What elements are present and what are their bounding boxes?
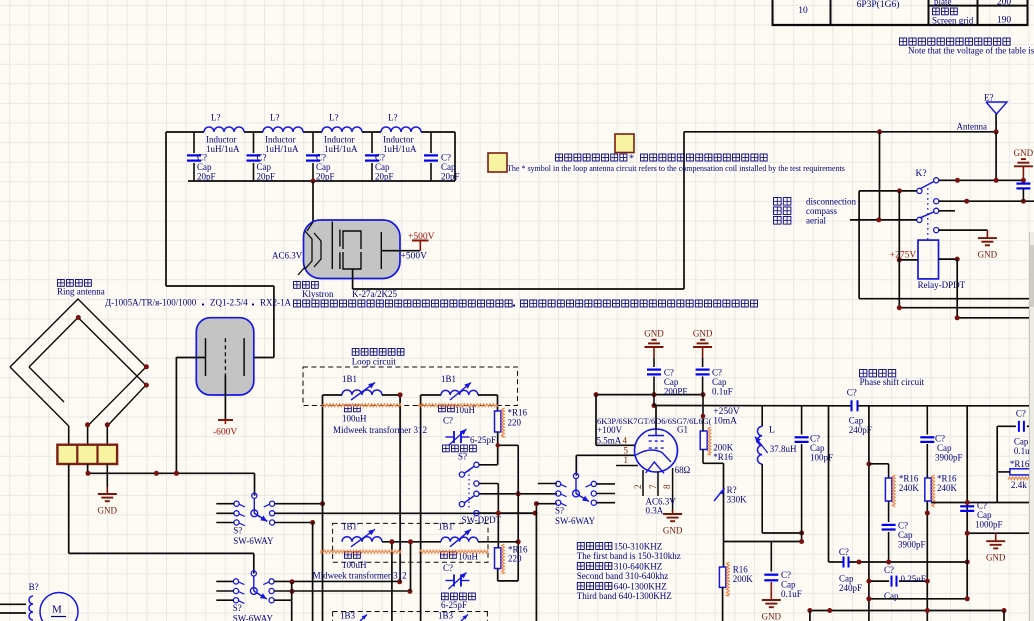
svg-text:240K: 240K (937, 483, 958, 493)
svg-text:C?: C? (712, 368, 722, 378)
svg-text:C?: C? (664, 368, 674, 378)
svg-text:Second band 310-640khz: Second band 310-640khz (577, 571, 668, 581)
svg-text:GND: GND (98, 506, 118, 516)
svg-text:Phase shift circuit: Phase shift circuit (860, 377, 925, 387)
svg-text:Cap: Cap (316, 162, 331, 172)
svg-text:Klystron: Klystron (302, 289, 334, 299)
svg-text:L?: L? (270, 113, 280, 123)
svg-text:100uH: 100uH (342, 560, 367, 570)
svg-text:220: 220 (508, 554, 522, 564)
svg-text:compass: compass (806, 206, 837, 216)
svg-text:C?: C? (375, 153, 385, 163)
svg-text:Inductor: Inductor (383, 135, 414, 145)
svg-text:C?: C? (898, 521, 908, 531)
svg-text:1uH/1uA: 1uH/1uA (383, 144, 417, 154)
svg-text:3900pF: 3900pF (898, 540, 926, 550)
svg-text:20pF: 20pF (441, 172, 460, 182)
svg-text:R?: R? (727, 485, 737, 495)
svg-text:4: 4 (623, 435, 628, 445)
svg-text:C?: C? (441, 153, 451, 163)
svg-text:S?: S? (233, 525, 242, 535)
svg-text:R16: R16 (733, 565, 749, 575)
svg-text:GND: GND (644, 329, 664, 339)
svg-text:Д-1005A/TR/я-100/1000: Д-1005A/TR/я-100/1000 (105, 298, 197, 308)
svg-text:aerial: aerial (806, 216, 826, 226)
svg-text:Midweek transformer 312: Midweek transformer 312 (313, 571, 407, 581)
svg-text:6-25pF: 6-25pF (470, 435, 496, 445)
svg-text:20pF: 20pF (257, 172, 276, 182)
svg-text:C?: C? (847, 388, 857, 398)
svg-text:Cap: Cap (849, 416, 864, 426)
svg-text:SW-6WAY: SW-6WAY (233, 536, 274, 546)
svg-text:1uH/1uA: 1uH/1uA (206, 144, 240, 154)
svg-text:200PF: 200PF (664, 387, 688, 397)
svg-text:AC6.3V: AC6.3V (272, 251, 303, 261)
svg-text:S?: S? (555, 506, 564, 516)
svg-text:Third band 640-1300KHZ: Third band 640-1300KHZ (577, 591, 672, 601)
svg-text:5: 5 (624, 445, 629, 455)
svg-text:0.3A: 0.3A (646, 506, 664, 516)
svg-text:GND: GND (693, 329, 713, 339)
svg-text:1B1: 1B1 (441, 374, 456, 384)
svg-text:Cap: Cap (197, 162, 212, 172)
svg-text:10mA: 10mA (713, 417, 737, 427)
svg-text:C?: C? (443, 416, 453, 426)
svg-text:100pF: 100pF (810, 453, 833, 463)
svg-text:200: 200 (997, 0, 1012, 8)
svg-text:C?: C? (197, 153, 207, 163)
svg-text:C?: C? (257, 153, 267, 163)
svg-text:Relay-DPDT: Relay-DPDT (918, 280, 966, 290)
svg-text:C?: C? (884, 565, 894, 575)
svg-text:100uH: 100uH (342, 414, 367, 424)
svg-text:Cap: Cap (898, 530, 913, 540)
svg-text:+500V: +500V (401, 252, 428, 262)
svg-text:C?: C? (443, 563, 453, 573)
svg-text:B?: B? (29, 582, 39, 592)
svg-text:20pF: 20pF (316, 172, 335, 182)
svg-text:*R16: *R16 (1010, 459, 1030, 469)
svg-text:240K: 240K (899, 483, 920, 493)
svg-text:8: 8 (662, 484, 672, 489)
svg-text:Ω: Ω (684, 465, 691, 475)
svg-text:0.25uF: 0.25uF (901, 574, 926, 584)
svg-text:M: M (52, 604, 62, 616)
svg-text:310-640KHZ: 310-640KHZ (614, 562, 663, 572)
svg-text:Cap: Cap (664, 377, 679, 387)
svg-text:200K: 200K (713, 443, 734, 453)
svg-text:GND: GND (986, 553, 1006, 563)
svg-text:G1: G1 (677, 425, 688, 435)
svg-text:GND: GND (1014, 148, 1034, 158)
svg-text:K?: K? (916, 169, 927, 179)
svg-text:1B1': 1B1' (438, 522, 455, 532)
svg-text:1B3: 1B3 (340, 611, 356, 621)
svg-text:Cap: Cap (977, 510, 992, 520)
svg-text:Note that the voltage of the t: Note that the voltage of the table is a (908, 46, 1034, 56)
svg-text:*R16: *R16 (899, 474, 919, 484)
svg-text:Cap: Cap (441, 162, 456, 172)
svg-text:Inductor: Inductor (265, 135, 296, 145)
svg-text:+275V: +275V (890, 251, 917, 261)
svg-text:SW-6WAY: SW-6WAY (233, 614, 274, 621)
svg-text:2.4k: 2.4k (1011, 480, 1027, 490)
svg-text:S?: S? (458, 452, 467, 462)
svg-text:L?: L? (211, 113, 221, 123)
svg-text:Cap: Cap (937, 443, 952, 453)
svg-text:7: 7 (648, 484, 658, 489)
svg-text:150-310KHZ: 150-310KHZ (614, 542, 663, 552)
svg-text:C?: C? (781, 570, 791, 580)
svg-text:1B1: 1B1 (342, 374, 357, 384)
svg-text:S?: S? (233, 603, 242, 613)
svg-text:C?: C? (810, 434, 820, 444)
svg-text:1uH/1uA: 1uH/1uA (265, 144, 299, 154)
svg-text:Cap: Cap (257, 162, 272, 172)
svg-text:Cap: Cap (839, 574, 854, 584)
svg-text:ZQ1-2.5/4: ZQ1-2.5/4 (210, 298, 248, 308)
svg-text:Cap: Cap (781, 580, 796, 590)
svg-text:C?: C? (316, 153, 326, 163)
svg-text:37.8uH: 37.8uH (770, 444, 797, 454)
svg-text:330K: 330K (727, 495, 748, 505)
svg-text:*R16: *R16 (937, 474, 957, 484)
svg-text:Inductor: Inductor (206, 135, 237, 145)
svg-text:220: 220 (508, 418, 522, 428)
svg-text:10: 10 (798, 6, 808, 16)
svg-text:6P3P(1G6): 6P3P(1G6) (857, 0, 900, 10)
svg-text:The * symbol in the loop anten: The * symbol in the loop antenna circuit… (507, 164, 845, 173)
svg-text:RX2-1A: RX2-1A (260, 298, 291, 308)
svg-text:1B1': 1B1' (342, 522, 359, 532)
svg-text:L: L (769, 426, 775, 436)
svg-text:-600V: -600V (213, 428, 237, 438)
svg-text:K-27a/2K25: K-27a/2K25 (352, 289, 397, 299)
svg-text:*R16: *R16 (713, 452, 733, 462)
svg-text:640-1300KHZ: 640-1300KHZ (614, 582, 667, 592)
svg-text:Cap: Cap (1014, 437, 1029, 447)
svg-text:GND: GND (663, 526, 683, 536)
svg-text:C?: C? (839, 547, 849, 557)
svg-text:Antenna: Antenna (957, 122, 988, 132)
svg-text:Loop circuit: Loop circuit (352, 357, 397, 367)
svg-text:GND: GND (978, 250, 998, 260)
svg-text:The first band is 150-310khz: The first band is 150-310khz (577, 551, 681, 561)
svg-text:20pF: 20pF (375, 172, 394, 182)
svg-text:200K: 200K (733, 574, 754, 584)
svg-text:L?: L? (388, 113, 398, 123)
svg-text:240pF: 240pF (839, 583, 862, 593)
svg-text:*R16: *R16 (508, 408, 528, 418)
svg-text:GND: GND (762, 612, 782, 621)
svg-text:1: 1 (624, 455, 629, 465)
svg-text:disconnection: disconnection (806, 197, 856, 207)
svg-text:0.1uF: 0.1uF (781, 589, 802, 599)
svg-text:190: 190 (997, 16, 1012, 26)
svg-text:20pF: 20pF (197, 172, 216, 182)
svg-text:plate: plate (934, 0, 952, 7)
svg-text:0.1uF: 0.1uF (712, 387, 733, 397)
svg-text:L?: L? (329, 113, 339, 123)
svg-text:+500V: +500V (408, 232, 435, 242)
svg-text:Ring antenna: Ring antenna (57, 287, 105, 297)
svg-text:1000pF: 1000pF (975, 520, 1003, 530)
svg-text:Screen grid: Screen grid (932, 16, 974, 26)
svg-text:Inductor: Inductor (324, 135, 355, 145)
svg-text:Midweek transformer 312: Midweek transformer 312 (333, 425, 427, 435)
svg-text:C?: C? (1016, 409, 1026, 419)
svg-text:3900pF: 3900pF (935, 453, 963, 463)
svg-text:Cap: Cap (712, 377, 727, 387)
svg-text:E?: E? (984, 93, 994, 103)
svg-text:C?: C? (935, 434, 945, 444)
svg-text:1B3: 1B3 (438, 611, 454, 621)
svg-text:1uH/1uA: 1uH/1uA (324, 144, 358, 154)
svg-text:*: * (629, 154, 634, 165)
svg-text:Cap: Cap (810, 443, 825, 453)
svg-text:Cap: Cap (375, 162, 390, 172)
svg-text:5.5mA: 5.5mA (597, 435, 622, 445)
svg-text:SW-6WAY: SW-6WAY (555, 516, 596, 526)
svg-text:0.1u: 0.1u (1014, 446, 1030, 456)
svg-text:+100V: +100V (597, 425, 623, 435)
svg-text:2: 2 (633, 485, 643, 490)
svg-text:6-25pF: 6-25pF (441, 600, 467, 610)
svg-text:+250V: +250V (713, 407, 740, 417)
